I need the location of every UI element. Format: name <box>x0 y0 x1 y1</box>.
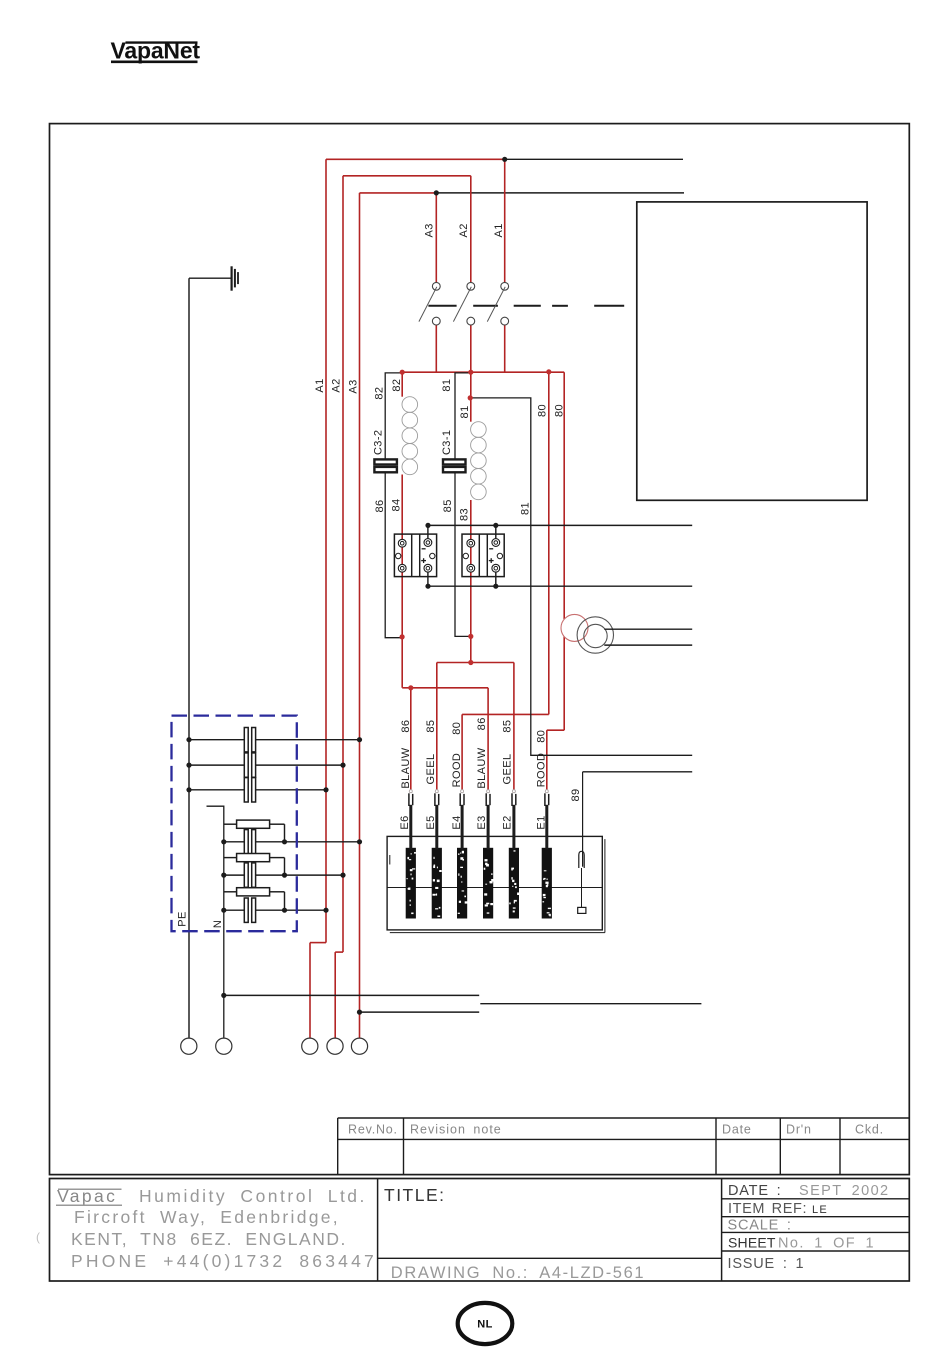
svg-text:80: 80 <box>553 404 565 417</box>
svg-text:C3-2: C3-2 <box>372 430 384 455</box>
svg-text:SHEET: SHEET <box>728 1235 776 1251</box>
svg-text:BLAUW: BLAUW <box>400 747 412 788</box>
svg-text:TITLE:: TITLE: <box>384 1185 446 1205</box>
svg-text:SEPT 2002: SEPT 2002 <box>799 1183 890 1199</box>
svg-text:KENT, TN8 6EZ. ENGLAND.: KENT, TN8 6EZ. ENGLAND. <box>71 1229 347 1249</box>
svg-text:A3: A3 <box>347 379 359 393</box>
svg-text:E1: E1 <box>536 815 548 829</box>
svg-text:82: 82 <box>391 379 403 392</box>
svg-text:E5: E5 <box>425 815 437 829</box>
svg-text:Revision note: Revision note <box>410 1123 502 1137</box>
svg-text:A3: A3 <box>424 223 436 237</box>
svg-text:83: 83 <box>458 508 470 521</box>
svg-text:89: 89 <box>570 788 582 801</box>
svg-text:81: 81 <box>519 502 531 515</box>
svg-text:E2: E2 <box>502 815 514 829</box>
svg-text:E3: E3 <box>476 815 488 829</box>
svg-text:N: N <box>212 920 224 928</box>
svg-text:E4: E4 <box>451 815 463 829</box>
svg-text:BLAUW: BLAUW <box>476 747 488 788</box>
svg-text:PHONE +44(0)1732 863447: PHONE +44(0)1732 863447 <box>71 1251 377 1271</box>
svg-text:A2: A2 <box>330 378 342 392</box>
svg-text:Date: Date <box>722 1123 752 1137</box>
svg-text:Dr'n: Dr'n <box>786 1123 812 1137</box>
svg-text:A2: A2 <box>458 223 470 237</box>
svg-text:81: 81 <box>459 405 471 418</box>
svg-text:A1: A1 <box>314 378 326 392</box>
svg-text:86: 86 <box>476 717 488 730</box>
svg-text:Rev.No.: Rev.No. <box>348 1123 398 1137</box>
svg-text:Ckd.: Ckd. <box>855 1123 884 1137</box>
svg-text:80: 80 <box>536 730 548 743</box>
svg-text:ROOD: ROOD <box>451 753 463 788</box>
svg-text:E6: E6 <box>399 815 411 829</box>
svg-text:85: 85 <box>502 720 514 733</box>
svg-text:PE: PE <box>176 911 188 926</box>
svg-text:GEEL: GEEL <box>502 754 514 785</box>
svg-text:80: 80 <box>451 722 463 735</box>
svg-text:84: 84 <box>390 498 402 511</box>
svg-text:SCALE :: SCALE : <box>728 1218 792 1234</box>
svg-text:ITEM REF:: ITEM REF: <box>728 1201 807 1217</box>
svg-text:85: 85 <box>442 499 454 512</box>
svg-text:A1: A1 <box>493 223 505 237</box>
svg-text:DATE :: DATE : <box>728 1183 781 1199</box>
svg-text:DRAWING No.: A4-LZD-561: DRAWING No.: A4-LZD-561 <box>391 1264 645 1282</box>
svg-text:85: 85 <box>425 720 437 733</box>
svg-text:Humidity Control Ltd.: Humidity Control Ltd. <box>139 1186 367 1206</box>
svg-text:80: 80 <box>536 404 548 417</box>
svg-text:NL: NL <box>477 1319 492 1331</box>
svg-text:C3-1: C3-1 <box>441 430 453 455</box>
svg-text:(: ( <box>36 1230 40 1244</box>
svg-text:ROOD: ROOD <box>536 753 548 788</box>
svg-text:No. 1 OF 1: No. 1 OF 1 <box>778 1236 875 1252</box>
svg-text:LE: LE <box>812 1204 828 1216</box>
svg-text:ISSUE : 1: ISSUE : 1 <box>728 1256 805 1272</box>
svg-text:81: 81 <box>441 379 453 392</box>
svg-text:GEEL: GEEL <box>425 754 437 785</box>
svg-text:82: 82 <box>374 387 386 400</box>
svg-text:Fircroft Way, Edenbridge,: Fircroft Way, Edenbridge, <box>74 1207 340 1227</box>
svg-text:86: 86 <box>400 720 412 733</box>
svg-text:86: 86 <box>374 499 386 512</box>
